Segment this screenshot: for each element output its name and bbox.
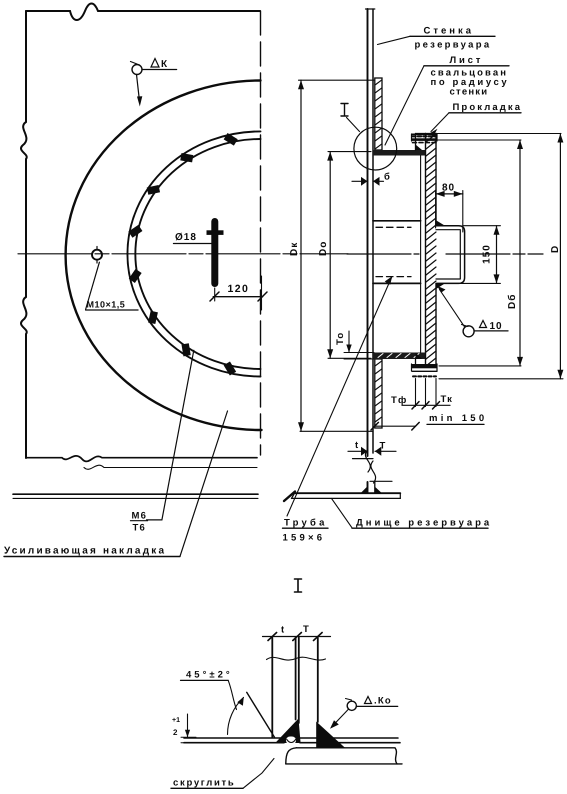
pad strip T (detail) — [299, 638, 318, 724]
nozzle shell ring bottom wall (section) — [373, 353, 426, 360]
svg-text:Т: Т — [380, 441, 387, 452]
wall thickness dim (b) under detail circle — [352, 170, 384, 186]
wall break symbol (section) — [353, 450, 393, 483]
extension lines below flange for Tf/Tk — [416, 379, 437, 407]
tank bottom plate (section) — [284, 492, 400, 502]
sheet border left edge with breaks — [21, 11, 27, 458]
svg-text:159×6: 159×6 — [283, 533, 326, 544]
svg-text:Т: Т — [303, 624, 310, 635]
svg-text:Усиливающая накладка: Усиливающая накладка — [4, 546, 166, 557]
svg-text:t: t — [281, 625, 285, 636]
svg-text:+1: +1 — [172, 717, 180, 724]
svg-text:Тф: Тф — [391, 395, 408, 406]
svg-text:Dб: Dб — [507, 294, 518, 309]
To dimension (ring thickness) — [344, 331, 374, 359]
detail I circle — [354, 127, 397, 170]
svg-text:150: 150 — [482, 244, 493, 264]
svg-text:резервуара: резервуара — [415, 40, 492, 51]
min 150 dimension — [371, 422, 484, 430]
svg-text:Прокладка: Прокладка — [453, 102, 523, 113]
svg-text:Т6: Т6 — [133, 523, 147, 534]
leader to weld fraction M6/T6 — [147, 350, 194, 520]
svg-text:.Ко: .Ко — [374, 696, 392, 707]
t/T wall thickness dimension (section) — [348, 447, 396, 456]
weld flange-to-ring (top) — [416, 145, 423, 151]
D dimension (flange OD) — [437, 134, 563, 379]
svg-text:2: 2 — [173, 728, 179, 737]
bolt circle outer arc — [127, 131, 260, 376]
bolts (8 studs on bolt circle) — [127, 131, 239, 377]
bottom bolt at bolt circle (section) — [412, 364, 438, 376]
break wave across strips (detail) — [267, 657, 326, 660]
svg-text:10: 10 — [490, 321, 503, 332]
Dk dimension — [298, 80, 374, 431]
svg-text:Dо: Dо — [318, 241, 329, 256]
svg-text:скруглить: скруглить — [173, 778, 235, 789]
nozzle shell ring top wall (section) — [373, 150, 426, 156]
svg-text:М10×1,5: М10×1,5 — [87, 300, 126, 310]
welds wall-to-bottom — [361, 486, 368, 493]
svg-text:min 150: min 150 — [429, 413, 487, 424]
Tf/Tk dimension line — [402, 402, 450, 409]
welds stub-to-cover — [436, 220, 445, 226]
detail I callout label — [341, 104, 360, 132]
bolt circle inner arc — [135, 139, 260, 369]
leader to reinforcing pad label — [180, 411, 228, 556]
svg-text:Стенка: Стенка — [424, 26, 475, 37]
weld flange-to-ring (bottom) — [416, 353, 423, 360]
bottom plate top lines (detail) — [184, 737, 398, 739]
rounded root slot (skруглить area) — [286, 737, 296, 745]
M10 threaded hole — [92, 247, 102, 264]
vertical centerline (view cut line) — [260, 11, 262, 455]
80 dimension (stub length) — [436, 191, 463, 233]
root face 2+1 dimension — [181, 714, 196, 743]
reinforcing pad upper part (hatched) — [375, 78, 382, 150]
reinforcing pad outer edge arc — [66, 81, 262, 431]
svg-text:Ø18: Ø18 — [175, 232, 197, 243]
svg-text:Лист: Лист — [450, 55, 484, 66]
Do dimension — [327, 152, 371, 359]
t/T dimension (detail) — [263, 633, 331, 641]
svg-text:Тк: Тк — [441, 394, 454, 405]
150 dimension (stub bore) — [437, 226, 500, 284]
flange ring (top and bottom parts) — [416, 134, 437, 367]
right weld triangle (detail) — [316, 722, 345, 748]
svg-text:t: t — [355, 440, 359, 451]
top bolt at bolt circle (section) — [412, 134, 438, 143]
weld symbol Ko (flag with circle) — [332, 699, 398, 727]
stud (bolt) drawing near Ø18 — [207, 218, 224, 287]
pipe 159x6 walls through opening — [373, 156, 421, 353]
detail title I — [295, 579, 302, 592]
wall strip t (detail) — [272, 638, 295, 738]
angle dimension arc — [228, 698, 244, 735]
svg-text:стенки: стенки — [450, 86, 489, 97]
blind cover plate (hatched) — [426, 134, 437, 367]
tank bottom edge lines — [13, 493, 258, 495]
pipe 159x6 label with long leader — [287, 278, 392, 517]
weld symbol K (flag) — [131, 62, 177, 103]
svg-text:120: 120 — [228, 283, 250, 295]
sheet border top edge with break — [26, 4, 260, 21]
bottom shell band line B — [84, 465, 257, 469]
shell plate (detail, comes from right) — [286, 748, 402, 764]
120 dimension — [210, 276, 267, 310]
svg-text:Dк: Dк — [289, 242, 300, 256]
svg-text:Труба: Труба — [284, 518, 328, 529]
svg-text:80: 80 — [442, 183, 455, 194]
svg-text:То: То — [335, 332, 346, 345]
weld symbol 10 (flag with circle) — [440, 290, 509, 337]
tank bottom label — [332, 498, 353, 527]
svg-text:45°±2°: 45°±2° — [186, 670, 233, 681]
reinforcing pad lower part (hatched) — [375, 359, 382, 428]
svg-text:М6: М6 — [132, 511, 148, 522]
horizontal centerline — [18, 253, 348, 255]
bevel edge 45deg (detail) — [247, 692, 275, 737]
tank wall (vertical shell) — [366, 9, 375, 493]
svg-text:Днище резервуара: Днище резервуара — [356, 518, 492, 529]
M10x1,5 label with leader — [86, 262, 138, 310]
svg-text:D: D — [550, 245, 561, 253]
left weld triangle (detail) — [275, 719, 300, 744]
Db dimension (bolt circle) — [437, 140, 523, 366]
svg-text:б: б — [384, 172, 391, 183]
stub pipe outside cover — [436, 226, 465, 284]
svg-text:К: К — [161, 59, 168, 70]
bottom shell band line A with break — [26, 456, 257, 462]
